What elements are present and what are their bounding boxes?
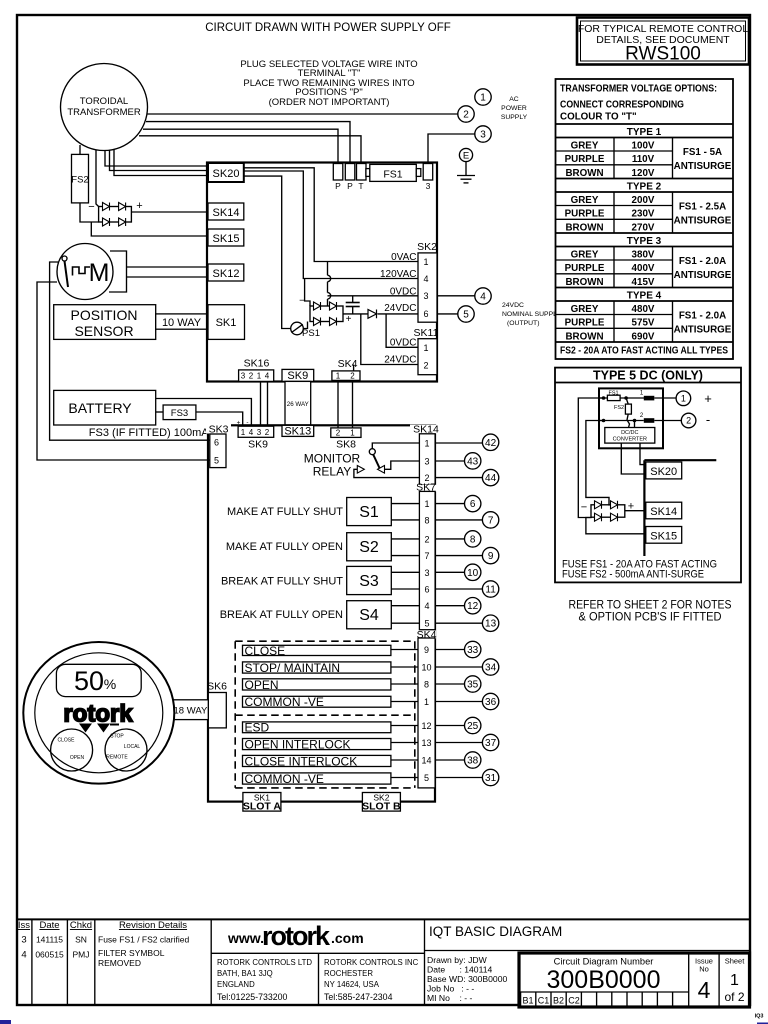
svg-text:SK2: SK2 bbox=[417, 241, 437, 253]
svg-text:11: 11 bbox=[485, 585, 496, 596]
svg-text:SK8: SK8 bbox=[336, 439, 356, 451]
control station inner rim bbox=[35, 653, 163, 773]
svg-text:FS2: FS2 bbox=[71, 175, 88, 186]
svg-text:200V: 200V bbox=[632, 195, 655, 206]
svg-text:6: 6 bbox=[423, 309, 428, 319]
svg-text:Iss: Iss bbox=[18, 920, 30, 931]
connector SK16 bbox=[239, 358, 274, 382]
terminal box STOP/MAINTAIN bbox=[243, 661, 391, 675]
svg-text:3: 3 bbox=[424, 568, 429, 578]
svg-text:120VAC: 120VAC bbox=[380, 269, 417, 280]
svg-text:6: 6 bbox=[470, 499, 476, 510]
svg-text:CLOSE: CLOSE bbox=[245, 644, 286, 658]
svg-text:POWER: POWER bbox=[501, 105, 527, 112]
connector SK3 bbox=[206, 423, 231, 467]
svg-text:(ORDER NOT IMPORTANT): (ORDER NOT IMPORTANT) bbox=[269, 97, 390, 108]
drawing title bbox=[425, 924, 751, 951]
wire SK4 pin8 to terminal 35 bbox=[435, 683, 464, 685]
svg-text:6: 6 bbox=[424, 585, 429, 595]
connector SK12 bbox=[208, 264, 244, 281]
wire 24VDC row bbox=[343, 313, 368, 315]
svg-text:MI No : - -: MI No : - - bbox=[427, 993, 472, 1003]
svg-text:FS1 - 2.5A: FS1 - 2.5A bbox=[679, 202, 726, 213]
switch S2 bbox=[347, 533, 392, 561]
svg-text:LOCAL: LOCAL bbox=[124, 744, 141, 750]
svg-text:PS1: PS1 bbox=[302, 328, 320, 339]
wire terminal 3 to stud 3 bbox=[428, 134, 475, 164]
svg-text:PURPLE: PURPLE bbox=[565, 209, 605, 220]
toroidal transformer T1 bbox=[61, 64, 148, 151]
wire SK2 pin3 to terminal 4 bbox=[437, 295, 475, 297]
close/open knob bbox=[51, 729, 93, 771]
wire SK4 pin12 to terminal 25 bbox=[435, 725, 464, 727]
svg-text:12: 12 bbox=[467, 601, 479, 612]
svg-text:IQ3: IQ3 bbox=[755, 1014, 764, 1020]
wire battery to SK9 pin bbox=[156, 399, 252, 427]
lower main board bbox=[208, 425, 435, 801]
switch S1 bbox=[347, 498, 392, 526]
svg-text:FILTER SYMBOL: FILTER SYMBOL bbox=[98, 948, 165, 958]
svg-text:FS2 - 20A ATO FAST ACTING ALL: FS2 - 20A ATO FAST ACTING ALL TYPES bbox=[560, 346, 728, 357]
type5 terminal stub 1 bbox=[640, 391, 676, 401]
terminal box CLOSE bbox=[243, 644, 391, 658]
address rotork controls inc bbox=[324, 958, 419, 1002]
wire SK2 pin6 to terminal 5 bbox=[437, 313, 458, 315]
svg-text:2: 2 bbox=[350, 371, 355, 380]
svg-text:−: − bbox=[88, 201, 94, 213]
switch S3 bbox=[347, 566, 392, 594]
svg-text:S2: S2 bbox=[359, 539, 379, 556]
svg-text:FUSE FS2 - 500mA ANTI-SURGE: FUSE FS2 - 500mA ANTI-SURGE bbox=[562, 569, 704, 581]
upper main board bbox=[207, 163, 437, 382]
svg-text:SLOT B: SLOT B bbox=[362, 801, 401, 813]
svg-text:5: 5 bbox=[214, 456, 219, 466]
fuse FS1 bbox=[366, 164, 421, 181]
svg-text:110V: 110V bbox=[632, 154, 655, 165]
wires S3 to SK7 bbox=[391, 571, 419, 573]
rotork logo bbox=[63, 701, 133, 733]
svg-text:RWS100: RWS100 bbox=[625, 44, 701, 65]
dashed option group box bbox=[235, 641, 415, 788]
wire SK4 pin13 to terminal 37 bbox=[435, 742, 482, 744]
svg-text:−: − bbox=[299, 296, 305, 307]
stud 3 bbox=[423, 164, 433, 192]
svg-text:TYPE 5 DC (ONLY): TYPE 5 DC (ONLY) bbox=[593, 369, 703, 383]
terminal box COMMON -VE bbox=[243, 695, 391, 709]
svg-text:1: 1 bbox=[423, 257, 428, 267]
svg-text:BREAK AT FULLY OPEN: BREAK AT FULLY OPEN bbox=[220, 609, 343, 621]
type5 connector SK14 bbox=[646, 502, 682, 519]
svg-text:GREY: GREY bbox=[571, 140, 599, 151]
terminal box ESD bbox=[243, 721, 391, 735]
connector SK14 bbox=[208, 203, 244, 220]
svg-text:(OUTPUT): (OUTPUT) bbox=[507, 320, 539, 327]
wires S2 to SK7 bbox=[391, 538, 419, 540]
svg-text:1: 1 bbox=[424, 439, 429, 449]
svg-text:18 WAY: 18 WAY bbox=[174, 706, 208, 717]
svg-text:Revision Details: Revision Details bbox=[119, 920, 187, 931]
svg-text:SK14: SK14 bbox=[213, 207, 240, 219]
type 5 dc box bbox=[555, 368, 741, 583]
svg-text:IQT BASIC DIAGRAM: IQT BASIC DIAGRAM bbox=[429, 924, 562, 939]
type5 inner module box bbox=[599, 388, 663, 448]
svg-text:C1: C1 bbox=[538, 996, 550, 1006]
svg-text:ESD: ESD bbox=[245, 721, 270, 735]
svg-text:SK1: SK1 bbox=[216, 317, 237, 329]
svg-text:4: 4 bbox=[423, 274, 428, 284]
position sensor bbox=[54, 305, 156, 340]
svg-text:44: 44 bbox=[485, 473, 497, 484]
svg-text:P: P bbox=[335, 181, 341, 191]
wire SK7 pin1 to terminal 6 bbox=[435, 503, 465, 505]
wire FS3 to SK9 pin bbox=[196, 412, 243, 426]
svg-text:230V: 230V bbox=[632, 209, 655, 220]
svg-text:5: 5 bbox=[424, 773, 429, 783]
svg-text:SK9: SK9 bbox=[248, 439, 268, 451]
svg-text:-: - bbox=[706, 412, 710, 427]
wire transformer to terminal 2 bbox=[148, 113, 458, 115]
svg-text:8: 8 bbox=[424, 680, 429, 690]
wire to SK11 24VDC bbox=[361, 314, 418, 365]
fuse FS2 bbox=[71, 154, 88, 203]
svg-text:B2: B2 bbox=[553, 996, 564, 1006]
svg-text:+: + bbox=[136, 200, 142, 212]
svg-text:7: 7 bbox=[488, 515, 494, 526]
svg-text:37: 37 bbox=[485, 738, 497, 749]
local/remote knob bbox=[105, 729, 147, 771]
wire 0VDC row bbox=[328, 295, 419, 297]
svg-text:4: 4 bbox=[265, 372, 270, 381]
svg-text:5: 5 bbox=[424, 619, 429, 629]
svg-text:PURPLE: PURPLE bbox=[565, 318, 605, 329]
stud P2 bbox=[345, 164, 355, 192]
svg-text:DC/DC: DC/DC bbox=[621, 430, 638, 436]
circuit diagram number box bbox=[519, 953, 750, 1007]
svg-text:TYPE 2: TYPE 2 bbox=[627, 181, 662, 192]
slot A connector bbox=[243, 793, 282, 813]
svg-text:T: T bbox=[358, 181, 363, 191]
connector SK11 bbox=[414, 327, 439, 375]
svg-text:9: 9 bbox=[424, 645, 429, 655]
svg-text:5: 5 bbox=[463, 310, 469, 321]
svg-text:1: 1 bbox=[423, 343, 428, 353]
svg-text:BROWN: BROWN bbox=[565, 168, 603, 179]
svg-text:Tel:585-247-2304: Tel:585-247-2304 bbox=[324, 992, 393, 1002]
svg-text:ROCHESTER: ROCHESTER bbox=[324, 969, 373, 978]
blue registration mark left bbox=[0, 1020, 11, 1024]
type5 wire bridge to SK14 bbox=[625, 510, 646, 512]
svg-text:FS1 - 2.0A: FS1 - 2.0A bbox=[679, 256, 726, 267]
svg-text:480V: 480V bbox=[632, 304, 655, 315]
svg-text:13: 13 bbox=[485, 619, 497, 630]
svg-text:BREAK AT FULLY SHUT: BREAK AT FULLY SHUT bbox=[221, 575, 343, 587]
svg-text:ENGLAND: ENGLAND bbox=[217, 980, 255, 989]
svg-text:1: 1 bbox=[681, 394, 686, 404]
svg-text:Base WD: 300B0000: Base WD: 300B0000 bbox=[427, 974, 507, 984]
wire SK7 pin5 to terminal 13 bbox=[435, 622, 482, 624]
svg-text:POSITION: POSITION bbox=[71, 307, 138, 323]
connector SK6 bbox=[207, 681, 227, 728]
svg-text:6: 6 bbox=[214, 438, 219, 448]
wire 120VAC junction to bridge bbox=[305, 279, 310, 307]
connector SK14 lower pins bbox=[410, 423, 439, 485]
svg-text:060515: 060515 bbox=[35, 950, 64, 960]
bridge rectifier D5 bbox=[88, 200, 142, 226]
switch S4 bbox=[347, 601, 392, 629]
svg-text:24VDC: 24VDC bbox=[384, 303, 416, 314]
svg-text:GREY: GREY bbox=[571, 304, 599, 315]
type5 fuse FS2 bbox=[614, 398, 631, 428]
wire 0VAC to bridge hop bbox=[328, 262, 331, 307]
svg-text:ANTISURGE: ANTISURGE bbox=[674, 161, 732, 172]
svg-text:FS1 - 5A: FS1 - 5A bbox=[683, 147, 722, 158]
svg-text:2: 2 bbox=[336, 429, 341, 438]
svg-text:P: P bbox=[347, 181, 353, 191]
connector SK4 upper bbox=[332, 358, 360, 381]
svg-text:380V: 380V bbox=[632, 249, 655, 260]
wire transformer to stud P1 bbox=[143, 129, 338, 163]
svg-text:SK20: SK20 bbox=[650, 466, 677, 478]
svg-text:120V: 120V bbox=[632, 168, 655, 179]
wires S4 to SK7 bbox=[391, 605, 419, 607]
terminal circle 4 bbox=[475, 288, 491, 304]
svg-text:0VDC: 0VDC bbox=[390, 286, 417, 297]
svg-text:270V: 270V bbox=[632, 222, 655, 233]
connector SK2 bbox=[417, 241, 437, 322]
display window 50% bbox=[56, 664, 141, 696]
svg-text:Chkd: Chkd bbox=[70, 920, 92, 931]
type5 connector SK20 bbox=[646, 462, 682, 479]
svg-text:FS3: FS3 bbox=[171, 408, 188, 419]
svg-text:TYPE 3: TYPE 3 bbox=[627, 236, 662, 247]
svg-text:GREY: GREY bbox=[571, 249, 599, 260]
connector SK13 bbox=[282, 425, 314, 437]
svg-text:4: 4 bbox=[21, 950, 26, 961]
type5 bridge rectifier bbox=[581, 501, 634, 522]
terminal box COMMON -VE 2 bbox=[243, 772, 391, 786]
svg-text:8: 8 bbox=[424, 515, 429, 525]
svg-text:RELAY: RELAY bbox=[313, 465, 351, 479]
connector SK7 bbox=[413, 482, 437, 630]
svg-text:Date : 140114: Date : 140114 bbox=[427, 965, 493, 975]
svg-text:TYPE 4: TYPE 4 bbox=[627, 290, 662, 301]
svg-text:25: 25 bbox=[467, 721, 479, 732]
svg-text:SK15: SK15 bbox=[213, 233, 240, 245]
18 way connector bbox=[173, 700, 209, 720]
svg-text:43: 43 bbox=[467, 456, 479, 467]
svg-text:FS1: FS1 bbox=[383, 169, 402, 181]
svg-text:rotork: rotork bbox=[63, 701, 133, 728]
svg-text:TOROIDAL: TOROIDAL bbox=[80, 96, 128, 107]
fuse FS3 bbox=[163, 405, 196, 420]
svg-text:3: 3 bbox=[241, 372, 246, 381]
svg-text:SK6: SK6 bbox=[207, 681, 227, 693]
svg-text:2: 2 bbox=[423, 360, 428, 370]
svg-text:COMMON -VE: COMMON -VE bbox=[245, 695, 324, 709]
svg-text:& OPTION PCB'S IF FITTED: & OPTION PCB'S IF FITTED bbox=[579, 612, 722, 624]
wire to SK11 0VDC bbox=[386, 314, 418, 347]
svg-text:SK16: SK16 bbox=[244, 358, 270, 370]
svg-text:3: 3 bbox=[480, 130, 486, 141]
wire SK16 to SK9 lower b bbox=[267, 381, 269, 426]
svg-text:rotork: rotork bbox=[262, 921, 331, 951]
svg-text:FS1 - 2.0A: FS1 - 2.0A bbox=[679, 311, 726, 322]
svg-text:MAKE AT FULLY SHUT: MAKE AT FULLY SHUT bbox=[227, 506, 343, 518]
wire transformer to stud P2 bbox=[146, 122, 350, 164]
svg-text:SUPPLY: SUPPLY bbox=[501, 114, 528, 121]
type5 terminal circle 2 bbox=[681, 412, 710, 428]
revision table bbox=[18, 920, 190, 968]
svg-text:SK14: SK14 bbox=[650, 506, 677, 518]
svg-text:−: − bbox=[581, 502, 587, 514]
svg-text:100V: 100V bbox=[632, 140, 655, 151]
wire motor to SK3 pin 5 bbox=[37, 282, 210, 460]
svg-text:BROWN: BROWN bbox=[565, 331, 603, 342]
svg-text:+: + bbox=[346, 314, 352, 325]
svg-text:SK4: SK4 bbox=[338, 358, 358, 370]
connector SK9 lower bbox=[238, 426, 274, 450]
svg-text:42: 42 bbox=[485, 438, 497, 449]
svg-text:ANTISURGE: ANTISURGE bbox=[674, 270, 732, 281]
connector SK1 bbox=[208, 305, 245, 340]
wire SK7 pin7 to terminal 9 bbox=[435, 555, 482, 557]
svg-text:7: 7 bbox=[424, 551, 429, 561]
battery bbox=[54, 390, 156, 425]
wire SK4 pin9 to terminal 33 bbox=[435, 649, 464, 651]
wire SK20 to 0VAC bbox=[244, 168, 418, 262]
terminal circle 1 bbox=[475, 89, 491, 105]
wire SK4 to SK8 a bbox=[337, 380, 339, 428]
terminal box OPEN bbox=[243, 678, 391, 692]
wire SK7 pin3 to terminal 10 bbox=[435, 571, 465, 573]
svg-text:%: % bbox=[104, 676, 116, 692]
wire SK16 to SK9 lower a bbox=[260, 381, 262, 426]
svg-text:1: 1 bbox=[241, 428, 246, 437]
terminal circle 42 bbox=[482, 434, 498, 450]
svg-text:8: 8 bbox=[470, 534, 476, 545]
svg-text:2: 2 bbox=[249, 372, 254, 381]
svg-text:C2: C2 bbox=[568, 996, 580, 1006]
wire SK4 pin5 to terminal 31 bbox=[435, 777, 482, 779]
control station bezel bbox=[23, 642, 174, 784]
svg-text:690V: 690V bbox=[632, 331, 655, 342]
wire motor to SK3 pin 6 bbox=[50, 262, 210, 440]
svg-text:FS3 (IF FITTED) 100mA: FS3 (IF FITTED) 100mA bbox=[89, 427, 209, 439]
wire SK20 to PS1 bbox=[244, 176, 291, 328]
svg-text:SK13: SK13 bbox=[284, 426, 311, 438]
terminal circle 3 bbox=[475, 126, 491, 142]
connector SK9 upper bbox=[282, 369, 314, 382]
type5 terminal stub 2 bbox=[599, 413, 681, 423]
svg-text:0VAC: 0VAC bbox=[391, 252, 416, 263]
svg-text:26 WAY: 26 WAY bbox=[287, 401, 309, 408]
svg-text:4: 4 bbox=[249, 428, 254, 437]
svg-text:COLOUR TO "T": COLOUR TO "T" bbox=[560, 112, 637, 123]
svg-text:13: 13 bbox=[421, 738, 431, 748]
svg-text:4: 4 bbox=[480, 292, 486, 303]
svg-text:NY 14624, USA: NY 14624, USA bbox=[324, 980, 380, 989]
ribbon 26 way bbox=[285, 381, 311, 425]
capacitor C1 bbox=[346, 296, 360, 314]
svg-text:Circuit Diagram Number: Circuit Diagram Number bbox=[554, 957, 654, 967]
svg-text:AC: AC bbox=[509, 96, 519, 103]
wire SK7 pin4 to terminal 12 bbox=[435, 605, 465, 607]
svg-text:CLOSE: CLOSE bbox=[58, 738, 76, 744]
wire SK4 pin14 to terminal 38 bbox=[435, 759, 464, 761]
svg-text:Job No : - -: Job No : - - bbox=[427, 984, 474, 994]
svg-text:ANTISURGE: ANTISURGE bbox=[674, 216, 732, 227]
svg-text:STOP/ MAINTAIN: STOP/ MAINTAIN bbox=[245, 661, 341, 675]
svg-text:ROTORK CONTROLS LTD: ROTORK CONTROLS LTD bbox=[217, 958, 312, 967]
svg-text:4: 4 bbox=[698, 977, 711, 1003]
address rotork controls ltd bbox=[217, 958, 312, 1002]
svg-text:TRANSFORMER VOLTAGE OPTIONS:: TRANSFORMER VOLTAGE OPTIONS: bbox=[560, 84, 717, 95]
type5 wire converter to SK20 a bbox=[621, 443, 646, 474]
wire SK4 pin1 to terminal 36 bbox=[435, 701, 482, 703]
svg-text:+: + bbox=[704, 391, 712, 406]
svg-text:400V: 400V bbox=[632, 263, 655, 274]
svg-text:1: 1 bbox=[257, 372, 262, 381]
svg-text:Sheet: Sheet bbox=[725, 957, 746, 966]
svg-text:33: 33 bbox=[467, 645, 479, 656]
type5 fuse FS1 bbox=[599, 391, 644, 401]
svg-text:SN: SN bbox=[75, 935, 87, 945]
svg-text:14: 14 bbox=[421, 756, 431, 766]
rotork web logo bbox=[211, 921, 424, 1004]
svg-text:S4: S4 bbox=[359, 607, 379, 624]
svg-text:4: 4 bbox=[424, 601, 429, 611]
bridge rectifier D6 bbox=[299, 296, 352, 326]
type5 wire bridge to SK15 bbox=[586, 518, 646, 534]
10 way connector bbox=[156, 314, 208, 329]
terminal circle 44 bbox=[482, 469, 498, 485]
svg-text:1: 1 bbox=[350, 429, 355, 438]
svg-text:Tel:01225-733200: Tel:01225-733200 bbox=[217, 992, 288, 1002]
svg-text:10: 10 bbox=[421, 663, 431, 673]
type5 wire converter to SK20 b bbox=[640, 443, 646, 465]
svg-text:CLOSE INTERLOCK: CLOSE INTERLOCK bbox=[245, 755, 358, 769]
svg-text:PURPLE: PURPLE bbox=[565, 263, 605, 274]
svg-text:Drawn by: JDW: Drawn by: JDW bbox=[427, 955, 488, 965]
svg-text:38: 38 bbox=[467, 756, 479, 767]
svg-text:PMJ: PMJ bbox=[73, 950, 90, 960]
svg-text:B1: B1 bbox=[522, 996, 533, 1006]
motor M bbox=[57, 244, 113, 300]
wires option boxes to SK4 bbox=[391, 649, 418, 651]
type5 dc/dc converter bbox=[605, 421, 655, 444]
svg-text:REMOTE: REMOTE bbox=[106, 755, 128, 761]
svg-text:2: 2 bbox=[265, 428, 270, 437]
earth terminal E bbox=[457, 148, 475, 183]
wire SK20 to 120VAC bbox=[244, 171, 418, 279]
svg-text:35: 35 bbox=[467, 680, 479, 691]
svg-text:SK11: SK11 bbox=[414, 327, 439, 339]
wire transformer to SK20 row3 bbox=[114, 149, 208, 175]
svg-text:S3: S3 bbox=[359, 573, 379, 590]
svg-text:NOMINAL SUPPLY: NOMINAL SUPPLY bbox=[502, 311, 561, 318]
wire pin3 to terminal 43 bbox=[435, 460, 465, 462]
wire SK4 to SK8 b bbox=[352, 380, 354, 428]
svg-text:12: 12 bbox=[421, 721, 431, 731]
wire bridge + to SK14 bbox=[131, 211, 208, 213]
svg-text:1: 1 bbox=[336, 371, 341, 380]
svg-text:BATH, BA1 3JQ: BATH, BA1 3JQ bbox=[217, 969, 273, 978]
svg-text:1: 1 bbox=[730, 972, 739, 989]
slot B connector bbox=[362, 793, 401, 813]
svg-text:50: 50 bbox=[74, 666, 104, 696]
wire bezel to 18 way bbox=[173, 702, 176, 704]
stud T bbox=[357, 164, 367, 192]
